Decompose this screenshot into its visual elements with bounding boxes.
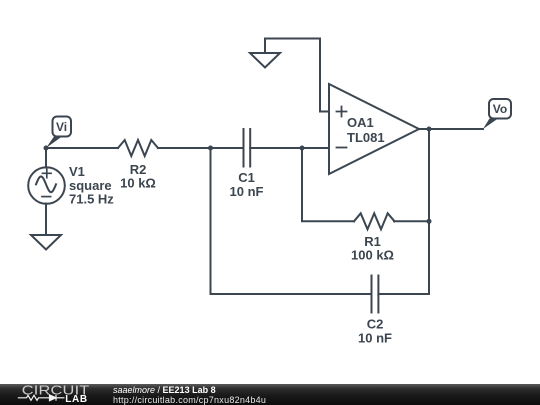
footer bar [0, 384, 540, 405]
ground (below V1) [31, 235, 61, 250]
op-amp OA1 (TL081) [329, 84, 419, 174]
svg-text:C2: C2 [367, 317, 384, 332]
svg-text:OA1: OA1 [347, 115, 374, 130]
flag Vi [46, 117, 71, 149]
node: V1 top junction [44, 146, 49, 151]
CircuitLab logo [0, 384, 100, 405]
svg-text:LAB: LAB [65, 394, 87, 405]
label R2 value [120, 162, 156, 191]
wire: R1 to output rail [394, 220, 429, 222]
wire: C1 to op-amp inverting input [250, 147, 329, 149]
node: output junction [427, 127, 432, 132]
svg-text:C1: C1 [238, 170, 255, 185]
label R1 value [351, 234, 394, 263]
wire: C2 right plate to output rail [378, 129, 429, 294]
svg-text:71.5 Hz: 71.5 Hz [69, 192, 114, 207]
label V1 value [69, 164, 114, 207]
svg-text:10 nF: 10 nF [358, 331, 392, 346]
wire: non-inverting input to top ground [265, 39, 329, 112]
resistor R1 [354, 213, 395, 229]
wire: inverting node down to R1 [302, 148, 354, 221]
svg-text:TL081: TL081 [347, 130, 385, 145]
svg-text:V1: V1 [69, 164, 85, 179]
node: R1/output rail junction [427, 219, 432, 224]
svg-text:10 kΩ: 10 kΩ [120, 176, 156, 191]
wire: node down from R2/C1 junction to C2 bottom rail [210, 148, 212, 294]
wire: R2 to C1 left plate [158, 147, 243, 149]
label C2 value [358, 317, 392, 346]
capacitor C1 [244, 129, 251, 167]
svg-text:10 nF: 10 nF [230, 184, 264, 199]
svg-text:100 kΩ: 100 kΩ [351, 248, 394, 263]
wire: bottom rail to C2 left plate [211, 293, 372, 295]
svg-text:Vo: Vo [493, 102, 507, 116]
wire: main input net V1 to R2 [46, 147, 118, 149]
svg-text:Vi: Vi [56, 120, 67, 134]
ground (non-inverting input) [250, 53, 280, 68]
resistor R2 [118, 140, 158, 156]
node: inverting input junction [300, 146, 305, 151]
wire: op-amp output [419, 128, 483, 130]
label C1 value [230, 170, 264, 199]
node: R2/C1 junction [208, 146, 213, 151]
capacitor C2 [372, 276, 379, 313]
flag Vo [483, 99, 511, 129]
voltage source V1 [28, 148, 65, 235]
